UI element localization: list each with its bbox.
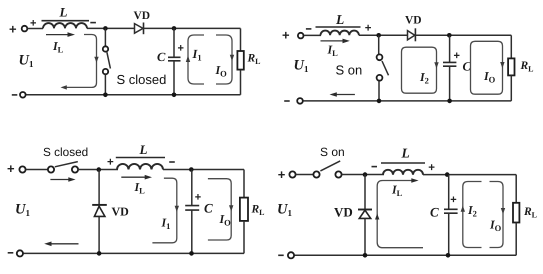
svg-text:+: + (365, 23, 372, 35)
label: - polarity at inductor right (90, 22, 96, 24)
inductor L2 top bar (316, 26, 361, 28)
node: junction of capacitor branch on Q3 bottom rail (189, 251, 194, 256)
svg-text:S on: S on (320, 145, 345, 159)
capacitor C4 (444, 175, 458, 256)
label: switch current arrow below S3 (50, 177, 75, 182)
wire: top rail from S4 to inductor L4 (342, 174, 385, 176)
svg-text:+: + (7, 161, 15, 176)
wire: right edge below resistor (240, 70, 242, 95)
label: - polarity at inductor L3 right (169, 161, 175, 163)
node: - input terminal (Q4 bottom left) (278, 254, 284, 256)
wire: top rail from VD2 to right edge (415, 34, 511, 36)
svg-text:L: L (401, 145, 410, 160)
switch S3 (S closed, horizontal) (48, 162, 78, 173)
wire: I_O circulating loop (right half, load mesh) (216, 35, 234, 84)
wire: bottom rail Q3 (23, 252, 244, 254)
wire: right edge above resistor (240, 28, 242, 51)
label: I_L current arrow under inductor L3 (121, 175, 152, 180)
label: - polarity at inductor L4 left (372, 166, 378, 168)
node: junction of capacitor branch on Q4 top rail (445, 172, 450, 177)
wire: right edge below resistor RL3 (243, 221, 245, 254)
wire: top rail from terminal to inductor L2 (304, 34, 321, 36)
terminal circle: Q4 top input (289, 171, 295, 177)
capacitor C1 (168, 28, 181, 94)
svg-text:S on: S on (336, 62, 363, 77)
label: - polarity at inductor left (306, 28, 312, 30)
wire: right edge below resistor RL2 (510, 75, 512, 101)
terminal circle: Q4 bottom input (288, 252, 294, 258)
wire: I_L mesh loop (middle mesh Q4, open C with arrows) (375, 178, 423, 248)
svg-text:+: + (178, 43, 184, 55)
inductor L1 (43, 23, 87, 28)
svg-text:L: L (59, 4, 68, 19)
svg-text:L: L (335, 12, 344, 27)
svg-text:C: C (204, 201, 213, 216)
node: junction of diode branch on Q3 top rail (97, 167, 102, 172)
node: junction of diode branch on Q3 bottom rail (97, 251, 102, 256)
svg-text:+: + (9, 22, 17, 37)
terminal circle: Q3 bottom input (17, 250, 23, 256)
terminal circle: Q2 bottom input (297, 98, 303, 104)
terminal circle: Q2 top input (298, 33, 304, 39)
terminal circle: top left input (22, 26, 28, 32)
wire: top rail from L3 to right edge (163, 169, 244, 171)
inductor L2 (321, 31, 359, 36)
inductor L4 (383, 170, 423, 175)
node: junction of capacitor branch on Q2 top rail (447, 33, 452, 38)
capacitor C2 (443, 35, 456, 101)
wire: I_O circulating loop (load mesh Q2) (471, 41, 505, 94)
node: - input terminal (Q3 bottom left) (8, 252, 14, 254)
svg-text:VD: VD (112, 204, 130, 218)
wire: I1 circulating loop (middle mesh Q3, C-shape) (152, 178, 179, 243)
node: junction of switch branch on Q2 top rail (376, 33, 381, 38)
wire: I2 circulating loop (middle mesh Q2) (402, 47, 439, 93)
svg-text:+: + (107, 156, 114, 168)
svg-text:VD: VD (134, 10, 151, 22)
svg-text:S closed: S closed (43, 145, 88, 159)
svg-text:+: + (195, 192, 201, 204)
node: junction of switch branch on Q2 bottom rail (377, 99, 382, 104)
diode VD3 (vertical freewheel diode) (92, 170, 107, 254)
wire: I_O circulating loop (right half, Q4 load mesh) (490, 182, 506, 248)
capacitor C3 (185, 170, 199, 254)
node: - input terminal (bottom left) (12, 94, 17, 96)
svg-text:+: + (454, 50, 460, 62)
inductor L3 (117, 164, 163, 170)
resistor RL3 (240, 198, 248, 221)
terminal circle: Q3 top input (19, 166, 25, 172)
wire: top rail from terminal to switch S3 (26, 169, 49, 171)
node: junction of diode branch on Q4 top rail (363, 172, 368, 177)
switch S2 (S on) (377, 35, 389, 101)
wire: I1 circulating loop (left half, cap mesh) (186, 35, 204, 84)
wire: bottom rail (26, 94, 241, 96)
svg-text:+: + (450, 194, 456, 206)
resistor RL4 (513, 203, 519, 223)
inductor L4 top bar (381, 162, 425, 164)
node: junction of capacitor branch on Q2 bottom rail (447, 99, 452, 104)
wire: top rail from terminal to switch S4 (296, 174, 314, 176)
wire: I2 circulating loop (left half, Q4 output meshes) (461, 182, 482, 248)
node: junction of capacitor branch on top rail (172, 26, 177, 31)
resistor RL1 (237, 51, 243, 70)
node: junction of diode branch on Q4 bottom rail (363, 253, 368, 258)
resistor RL2 (508, 58, 514, 75)
label: return current arrow on bottom (pointing left) (330, 92, 355, 97)
wire: bottom rail Q2 (303, 100, 511, 102)
svg-text:+: + (428, 162, 435, 174)
node: junction of capacitor branch on bottom rail (172, 93, 177, 98)
wire: right edge above resistor RL2 (510, 35, 512, 58)
node: junction of switch branch on bottom rail (103, 93, 108, 98)
wire: right edge above resistor RL3 (243, 170, 245, 198)
wire: top rail from L2 to diode VD2 (359, 34, 408, 36)
node: junction of capacitor branch on Q4 bottom rail (446, 253, 451, 258)
svg-text:S closed: S closed (117, 72, 167, 87)
wire: top rail from S3 to inductor L3 (78, 169, 118, 171)
wire: right edge above resistor RL4 (515, 175, 517, 203)
svg-text:VD: VD (334, 204, 353, 219)
wire: I_O circulating loop (load mesh Q3, C-shape) (208, 179, 234, 240)
diode VD4 (vertical freewheel diode) (358, 175, 372, 256)
svg-text:L: L (139, 142, 148, 157)
diode VD1 (135, 23, 144, 35)
svg-text:C: C (430, 204, 439, 219)
svg-text:+: + (282, 27, 290, 42)
wire: top rail from terminal to inductor L1 (28, 28, 44, 30)
switch S1 (S closed) (103, 28, 111, 94)
node: junction of capacitor branch on Q3 top rail (189, 167, 194, 172)
svg-text:+: + (278, 167, 286, 182)
wire: right edge below resistor RL4 (515, 223, 517, 256)
wire: bottom rail Q4 (294, 254, 516, 256)
svg-text:VD: VD (405, 15, 422, 27)
wire: mesh current loop (input mesh, down then left) (61, 35, 99, 90)
node: junction of switch branch on top rail (103, 26, 108, 31)
wire: top rail from L1 to diode VD1 (87, 27, 135, 29)
diode VD2 (408, 28, 416, 41)
wire: top rail from L4 to right edge (423, 174, 516, 176)
inductor L1 top bar (42, 20, 90, 22)
node: - input terminal (bottom left Q2) (284, 100, 290, 102)
label: I_L current arrow under inductor L2 (321, 39, 350, 44)
wire: top rail from VD1 to right edge (144, 27, 241, 29)
label: I_L current arrow under inductor (46, 32, 75, 37)
svg-text:C: C (157, 50, 166, 64)
inductor L3 top bar (116, 157, 165, 159)
switch S4 (S on) (313, 161, 341, 178)
label: return current arrow on Q3 bottom (pointing left) (44, 242, 78, 247)
terminal circle: bottom left input (20, 92, 26, 98)
